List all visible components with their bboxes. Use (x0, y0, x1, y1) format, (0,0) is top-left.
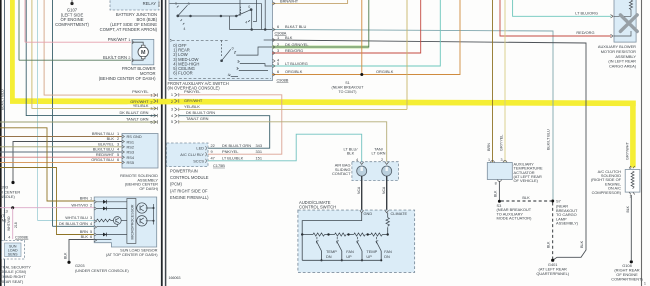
svg-text:4: 4 (8, 236, 10, 240)
audio/climate control switch label (299, 200, 336, 210)
svg-text:SCCS: SCCS (193, 158, 204, 163)
wire label BRN 5 (80, 229, 92, 234)
svg-text:GND: GND (364, 211, 373, 216)
wire BLK from solenoid pin 1 to G108 (626, 195, 632, 260)
pin 2 / wire DK GRN/YEL row (highlighted, exits top at x=368.8) (272, 0, 369, 49)
wire GRY/WHT highlighted yellow horizontal main run (10, 98, 636, 106)
sun load sensor box (94, 197, 157, 247)
wire LT BLU/BLK from PCM SCCS to air bag sliding contact pin 4 (208, 134, 362, 162)
svg-text:NCA: NCA (382, 186, 386, 194)
front auxiliary A/C switch label (168, 81, 229, 90)
svg-text:4: 4 (228, 73, 230, 77)
ground G108 (611, 260, 643, 281)
svg-text:6) FLOOR: 6) FLOOR (173, 71, 192, 76)
svg-text:DK BLU/LT GRN: DK BLU/LT GRN (59, 221, 88, 226)
wire CLIMATE (NCA) from sliding contact to audio/climate switch (382, 176, 387, 211)
svg-text:NSOLE): NSOLE) (0, 194, 15, 199)
switch TEMP UP (357, 237, 378, 262)
svg-text:BLK: BLK (494, 190, 498, 197)
svg-text:OF VEHICLE): OF VEHICLE) (514, 178, 539, 183)
svg-text:RELAY: RELAY (143, 1, 157, 6)
svg-text:2: 2 (171, 99, 173, 104)
svg-text:SENS: SENS (8, 252, 18, 256)
ground G107 (55, 0, 89, 27)
wire label WHT/VIO 2 (71, 202, 92, 207)
page divider (top center) (162, 0, 166, 286)
pin 1 / wire BLK row (to G401 via x=586) (264, 35, 586, 260)
wire label WHT/LT BLU 3 (65, 215, 92, 220)
svg-text:47: 47 (211, 156, 215, 161)
pin 3 / wire RED/ORG row (exits top at x=420.7) (272, 0, 421, 55)
CLIMATE internal wire with resistor (386, 213, 389, 235)
svg-text:POWERTRAIN: POWERTRAIN (170, 169, 198, 174)
left page: wire DK BLU/LT GRN row to divider (26, 0, 157, 118)
svg-text:218: 218 (14, 222, 18, 228)
svg-text:0: 0 (188, 2, 190, 6)
wire label LT BLU/BLK (344, 146, 359, 162)
auxiliary blower motor resistor label (598, 44, 637, 69)
svg-text:166063: 166063 (169, 276, 181, 280)
connector C175B (213, 163, 225, 168)
sun sensor microprocessor (127, 199, 136, 244)
wire ORG/LT BLU row (0, 157, 122, 162)
front auxiliary A/C switch box (169, 0, 273, 81)
svg-text:BRN: BRN (487, 143, 491, 151)
svg-text:GRY/WHT: GRY/WHT (626, 141, 630, 160)
sun sensor phototransistor 2 (136, 204, 155, 226)
svg-text:BLK: BLK (81, 234, 89, 239)
wire BLK/LT BLU row (0, 147, 122, 152)
wire BLK/YEL row (0, 141, 122, 146)
svg-text:ENGINE FIREWALL): ENGINE FIREWALL) (170, 195, 209, 200)
wire RED/WHT row (0, 152, 122, 157)
svg-text:A/C CLU RLY: A/C CLU RLY (180, 152, 204, 157)
switch FAN UP (337, 237, 354, 262)
svg-text:C3008E: C3008E (15, 236, 29, 240)
connector C908B (277, 78, 289, 83)
svg-text:BLK: BLK (547, 241, 551, 248)
wire BRN margin (to sun sensor pin 1) (0, 128, 94, 201)
svg-text:3: 3 (501, 158, 503, 162)
wire BLK/LT BLU left margin vertical (0, 0, 4, 286)
common return wire (left side) (301, 235, 303, 261)
wire RED/ORG vertical from top to resistor box (500, 0, 611, 36)
PCM pin 9 wire PNK/YEL 331 (211, 149, 263, 154)
front blower motor (99, 39, 156, 81)
pin 4 / wire DK BLU/LT GRN (to PCM LED) (171, 110, 270, 148)
wire PNK/WHT vertical (24, 0, 26, 42)
wire ORG/BLK vertical from top to splice S1 (361, 0, 363, 75)
pin 1 / wire PNK/YEL (to PCM A/C CLU RLY) (171, 89, 282, 154)
svg-text:COMPT, AT FENDER APRON): COMPT, AT FENDER APRON) (100, 27, 158, 32)
svg-text:1: 1 (234, 51, 236, 55)
svg-text:TAN/LT GRN: TAN/LT GRN (126, 117, 149, 122)
wire PNK/WHT horizontal to front blower motor pin 1 (25, 37, 131, 42)
svg-text:2: 2 (90, 202, 92, 207)
svg-text:2: 2 (128, 56, 130, 60)
wire GRY/YEL vertical from top to auxiliary temperature actuator (499, 0, 505, 163)
svg-text:YEL/BLK: YEL/BLK (133, 103, 149, 108)
svg-text:S1: S1 (345, 81, 349, 85)
svg-text:2: 2 (117, 136, 119, 141)
svg-text:3: 3 (150, 106, 152, 111)
svg-text:REAR SEAT): REAR SEAT) (0, 279, 24, 284)
wire BLK/LT GRN horizontal to front blower motor pin 2 (19, 55, 131, 60)
PCM pin 22 wire DK BLU/LT GRN 343 (211, 143, 263, 148)
air bag sliding contact box (332, 162, 398, 181)
svg-text:RED/ORG: RED/ORG (576, 30, 594, 35)
svg-text:DK GRN/YEL: DK GRN/YEL (285, 42, 309, 47)
svg-text:ASSEMBLY): ASSEMBLY) (556, 221, 579, 226)
svg-text:PNK/YEL: PNK/YEL (132, 89, 149, 94)
svg-text:2: 2 (237, 60, 239, 64)
PCM label (170, 169, 209, 200)
svg-text:UP: UP (366, 254, 372, 259)
svg-text:5: 5 (277, 61, 279, 66)
svg-text:(BEHIND CENTER OF DASH): (BEHIND CENTER OF DASH) (99, 76, 156, 81)
svg-text:3: 3 (90, 215, 92, 220)
svg-text:BLK: BLK (63, 252, 67, 259)
svg-text:6: 6 (117, 157, 119, 162)
svg-text:CLIMATE: CLIMATE (391, 211, 408, 216)
svg-text:2: 2 (150, 100, 152, 105)
svg-text:GRY/WHT: GRY/WHT (184, 98, 203, 103)
wire WHT/VIO branch down to CSM (7, 208, 29, 240)
svg-text:OF DASH): OF DASH) (139, 186, 158, 191)
svg-text:CONTROL MODULE: CONTROL MODULE (170, 175, 209, 180)
svg-text:PNK/WHT: PNK/WHT (108, 37, 128, 42)
label GRY/WHT on yellow band (0, 0, 1, 1)
splice S7 (551, 199, 578, 226)
svg-text:BLK: BLK (347, 151, 355, 156)
svg-text:BLK/LT BLU: BLK/LT BLU (285, 24, 306, 29)
wire BRN/LT BLU row (0, 131, 122, 136)
switch mechanical linkage dashes (170, 39, 272, 79)
svg-text:(NEAR BREAKOUT: (NEAR BREAKOUT (332, 85, 365, 89)
svg-text:151: 151 (256, 156, 263, 161)
page border left (0, 0, 2, 286)
svg-text:BRN: BRN (80, 196, 88, 201)
page number (644, 282, 646, 286)
svg-text:TO C304T): TO C304T) (339, 90, 357, 94)
svg-text:3: 3 (236, 67, 238, 71)
sun sensor output block row 6 (94, 239, 111, 241)
svg-text:UP: UP (346, 254, 352, 259)
battery junction box relay (cut off at top) (110, 0, 159, 10)
left page: wire YEL/BLK row to divider (32, 0, 158, 111)
svg-text:6: 6 (90, 234, 92, 239)
svg-text:1: 1 (644, 282, 646, 286)
svg-text:NCA: NCA (357, 186, 361, 194)
ground G401 (536, 259, 569, 277)
wire WHT/VIO row with splice (0, 206, 94, 223)
auxiliary blower motor resistor assembly box (611, 0, 638, 42)
ground G203 (under center console) (67, 261, 129, 273)
svg-text:DN: DN (326, 254, 332, 259)
pin 4 (empty) (273, 58, 281, 63)
wire BRN vertical from top to auxiliary temperature actuator (487, 0, 493, 163)
svg-text:QUARTERPANEL): QUARTERPANEL) (536, 271, 569, 276)
A/C clutch solenoid label (591, 169, 622, 195)
svg-text:2: 2 (277, 42, 279, 47)
svg-text:COMPARTMENT): COMPARTMENT) (611, 276, 643, 281)
sun sensor phototransistor 1 (136, 203, 155, 213)
svg-text:COMPARTMENT): COMPARTMENT) (55, 22, 89, 27)
svg-text:LT BLU/BLK: LT BLU/BLK (222, 156, 244, 161)
connector C908A (275, 30, 287, 35)
wire GRY/WHT highlighted yellow vertical (right, to A/C clutch solenoid) (626, 101, 636, 168)
svg-text:ORG/BLK: ORG/BLK (376, 69, 394, 74)
svg-text:343: 343 (256, 143, 263, 148)
remote solenoid assembly box (122, 134, 158, 169)
svg-text:GRY/YEL: GRY/YEL (499, 135, 503, 151)
remote solenoid assembly label (120, 173, 159, 191)
central security module (CSM, clipped at left) (0, 241, 31, 284)
svg-text:BLK: BLK (522, 195, 530, 200)
svg-text:BLK/LT BLU: BLK/LT BLU (547, 129, 551, 150)
svg-text:3: 3 (171, 107, 173, 112)
svg-text:RED/ORG: RED/ORG (285, 48, 303, 53)
svg-text:0: 0 (248, 5, 250, 9)
pin 3 / wire YEL/BLK (exits top at x=407) (171, 104, 407, 112)
svg-text:BLK: BLK (626, 205, 630, 212)
svg-text:C175B: C175B (213, 163, 225, 168)
switch TEMP DN (316, 237, 337, 262)
wire BLK row (to ground G203 left) (13, 136, 122, 181)
wire BLK from sun sensor pin 6 to ground G203 (63, 240, 94, 262)
svg-text:5: 5 (150, 120, 152, 125)
auxiliary temperature actuator label (514, 162, 544, 183)
svg-text:(AT RIGHT SIDE OF: (AT RIGHT SIDE OF (170, 188, 208, 193)
svg-text:MICROPROCESSOR: MICROPROCESSOR (131, 204, 135, 239)
svg-text:WHT/VIO: WHT/VIO (7, 216, 11, 231)
svg-text:2: 2 (381, 157, 383, 162)
wire GRY/WHT highlighted yellow vertical (left) (10, 0, 15, 103)
wire BLK dashed from S3 to S7 (501, 195, 551, 201)
svg-text:1: 1 (277, 35, 279, 40)
switch FAN DN (376, 237, 392, 262)
wire label TAN/LT GRN (372, 146, 386, 162)
svg-text:BLK: BLK (580, 240, 584, 248)
svg-text:PNK/YEL: PNK/YEL (222, 149, 239, 154)
svg-text:LED: LED (196, 146, 204, 151)
left page: wire PNK/YEL row to divider (44, 0, 157, 98)
auxiliary temperature actuator box (487, 158, 512, 185)
svg-text:1: 1 (488, 158, 490, 162)
ground G203 (left, clipped) (0, 181, 20, 199)
wire LT BLU/ORG vertical from top to resistor box (513, 0, 611, 16)
battery junction box label (100, 12, 158, 32)
svg-text:8: 8 (495, 182, 497, 186)
wire BLK/LT GRN vertical (18, 0, 20, 60)
switch S rotary 2 contacts (221, 40, 272, 76)
switch position list (173, 43, 199, 76)
pin 5 / wire LT BLU/ORG row (exits top at x=440.3) (272, 0, 440, 68)
svg-text:C908B: C908B (277, 78, 289, 83)
svg-text:COMPRESSOR): COMPRESSOR) (592, 190, 622, 195)
svg-text:M: M (141, 50, 146, 56)
pin 5 / wire TAN/LT GRN (to air bag sliding contact pin 2) (171, 116, 387, 162)
svg-text:(AT TOP CENTER OF DASH): (AT TOP CENTER OF DASH) (106, 252, 158, 257)
wire BLK dashed from S7 down to G401 (547, 203, 553, 259)
sun sensor diode row 2 (97, 207, 127, 211)
svg-text:1: 1 (128, 38, 130, 42)
sun sensor resistor + transistor row 3 (97, 217, 127, 227)
svg-text:MODE ACTUATOR): MODE ACTUATOR) (497, 216, 533, 221)
svg-text:CARGO AREA): CARGO AREA) (609, 64, 637, 69)
svg-text:DK BLU/LT GRN: DK BLU/LT GRN (222, 143, 251, 148)
svg-text:RS5: RS5 (127, 160, 135, 165)
svg-text:6: 6 (277, 69, 279, 74)
svg-text:1: 1 (150, 93, 152, 98)
left page: wire GRY/WHT label on yellow band (130, 99, 157, 104)
wire label DK BLU/LT GRN 4 (59, 221, 93, 226)
svg-text:TAN/LT GRN: TAN/LT GRN (186, 116, 209, 121)
page border right (641, 0, 643, 286)
svg-text:5: 5 (171, 119, 173, 124)
svg-text:LT BLU/ORG: LT BLU/ORG (285, 61, 308, 66)
svg-text:PNK/YEL: PNK/YEL (184, 89, 201, 94)
wire BLK from actuator pin 8 to splice S3 (494, 181, 500, 201)
pin 6 / wire BLK/LT BLU row (to S7 via x=553) (230, 16, 554, 201)
svg-text:WHT/LT BLU: WHT/LT BLU (65, 215, 88, 220)
svg-text:BLK: BLK (285, 35, 293, 40)
svg-text:BLK/LT GRN: BLK/LT GRN (103, 55, 127, 60)
wire BRN margin lower (to sun sensor pin 5) (0, 168, 94, 235)
pin 2 / wire GRY/WHT (yellow band label) (171, 98, 203, 104)
svg-text:DK BLU/LT GRN: DK BLU/LT GRN (119, 110, 148, 115)
svg-text:1: 1 (171, 92, 173, 97)
svg-text:4: 4 (183, 27, 185, 31)
A/C clutch solenoid (625, 166, 640, 199)
svg-text:LT GRN: LT GRN (372, 151, 386, 156)
svg-text:5: 5 (170, 39, 172, 43)
svg-text:DN: DN (384, 254, 390, 259)
svg-text:DK BLU/LT GRN: DK BLU/LT GRN (186, 110, 215, 115)
sheet number (169, 276, 181, 280)
switch common bus (302, 259, 381, 261)
wire label BRN 1 (80, 196, 92, 201)
svg-text:ORG/BLK: ORG/BLK (285, 69, 303, 74)
wire DK BLU/LT GRN vertical (to sun load sensor pin 4) (53, 0, 95, 226)
GND internal wire (302, 213, 362, 235)
resistor chain row (302, 233, 388, 236)
svg-text:4: 4 (245, 20, 247, 24)
PCM pin 47 wire LT BLU/BLK 151 (211, 156, 263, 161)
sun sensor diode row 5 (97, 233, 127, 237)
pin 4 / wire BRN/WHT (top row, exits top at x=347.6) (272, 0, 348, 5)
svg-text:YEL/BLK: YEL/BLK (184, 104, 200, 109)
splice S3 (497, 200, 533, 221)
wire WHT/LT BLU vertical (to sun load sensor pin 3) (38, 0, 95, 221)
svg-text:BLK/LT BLU: BLK/LT BLU (0, 89, 4, 110)
audio/climate control switch box (298, 210, 415, 272)
left page: wire TAN/LT GRN row to divider (0, 117, 158, 125)
svg-text:1: 1 (90, 196, 92, 201)
svg-text:1: 1 (175, 1, 177, 5)
wire YEL/BLK vertical from top (x=407) (406, 0, 408, 109)
svg-text:331: 331 (256, 149, 263, 154)
svg-text:LT BLU/ORG: LT BLU/ORG (575, 10, 598, 15)
svg-text:BLK: BLK (107, 136, 115, 141)
pin 6 / wire ORG/BLK row (S1 splice, exits top at x=460) (272, 0, 460, 76)
svg-text:3: 3 (277, 48, 279, 53)
svg-text:CONTROL SWITCH: CONTROL SWITCH (299, 204, 336, 209)
svg-text:6: 6 (277, 24, 279, 29)
svg-text:9: 9 (211, 149, 213, 154)
svg-text:CONTACT: CONTACT (332, 171, 351, 176)
svg-text:WHT/VIO: WHT/VIO (71, 202, 88, 207)
svg-text:0: 0 (232, 47, 234, 51)
svg-text:22: 22 (211, 143, 215, 148)
sun sensor diode row 1 (97, 200, 127, 204)
chain junction nodes (301, 233, 389, 235)
splice S1 (332, 73, 365, 94)
wire GND (NCA) from sliding contact to audio/climate switch (357, 176, 362, 211)
sun load sensor label (106, 248, 158, 258)
svg-text:(UNDER CENTER CONSOLE): (UNDER CENTER CONSOLE) (75, 268, 129, 273)
wire label BLK 6 (81, 234, 93, 239)
svg-text:ORG/LT BLU: ORG/LT BLU (91, 157, 114, 162)
svg-text:(PCM): (PCM) (170, 182, 182, 187)
switch S rotary 1 contacts (170, 0, 267, 30)
powertrain control module box (167, 143, 208, 167)
